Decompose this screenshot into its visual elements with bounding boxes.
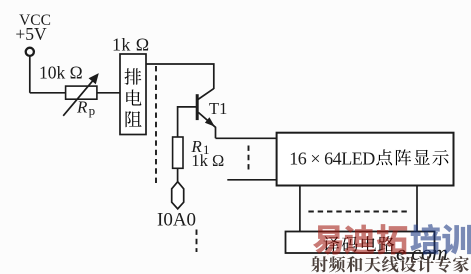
svg-text:I0A0: I0A0 xyxy=(157,209,196,230)
svg-text:R: R xyxy=(76,98,88,117)
watermark slogan row xyxy=(311,256,469,273)
wire from VCC terminal down xyxy=(29,57,31,93)
connector pin IOA0 (hexagon) xyxy=(172,182,184,209)
wire base of T1 to R1 xyxy=(178,107,196,137)
svg-text:16 × 64LED: 16 × 64LED xyxy=(289,148,375,168)
resistor network RN box (pai dian zu) xyxy=(120,54,146,135)
power terminal circle xyxy=(26,48,34,56)
wire RN to transistor collector xyxy=(146,64,214,89)
ellipsis dashed line (more RN outputs) xyxy=(155,66,157,186)
bus wire LED to decoder (left) xyxy=(299,186,301,232)
label decoder circuit (yi ma dian lu) xyxy=(324,236,340,251)
svg-text:T1: T1 xyxy=(209,99,227,118)
wire potentiometer to resistor network xyxy=(97,92,120,94)
svg-text:+5V: +5V xyxy=(15,24,47,44)
svg-text:1k Ω: 1k Ω xyxy=(112,35,149,55)
svg-text:10k Ω: 10k Ω xyxy=(39,63,83,83)
wire emitter to LED display xyxy=(216,137,277,139)
ellipsis dashed line (bus) xyxy=(308,211,408,213)
svg-text:1k Ω: 1k Ω xyxy=(191,151,224,170)
watermark big characters xyxy=(313,224,471,255)
potentiometer RP arrow xyxy=(63,80,93,116)
potentiometer RP body xyxy=(66,86,97,99)
transistor T1 emitter with arrow xyxy=(198,112,215,138)
transistor T1 base bar xyxy=(196,94,199,120)
stub wire next row to LED display xyxy=(227,179,276,181)
transistor T1 collector diagonal xyxy=(198,89,214,100)
decoder circuit box xyxy=(286,232,435,254)
ellipsis dashed line (below IOA0) xyxy=(196,230,198,253)
wire R1 to IOA0 pin xyxy=(177,168,179,181)
LED matrix display box xyxy=(277,133,454,186)
bus wire LED to decoder (right) xyxy=(416,186,418,232)
ellipsis dashed line (more driver stages) xyxy=(248,146,250,174)
resistor R1 body xyxy=(173,137,183,168)
wire to potentiometer xyxy=(30,92,66,94)
svg-text:p: p xyxy=(89,103,96,118)
